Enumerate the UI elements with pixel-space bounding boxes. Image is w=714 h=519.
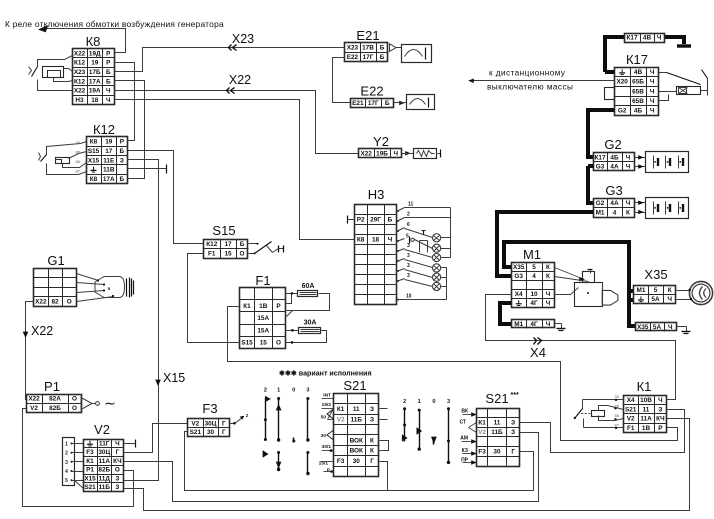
svg-text:Б: Б — [120, 148, 125, 155]
svg-text:М1: М1 — [514, 321, 523, 328]
ignition switch S21 contact table — [334, 394, 380, 477]
connector K17-4В inline table — [625, 34, 665, 43]
svg-text:Х4: Х4 — [530, 345, 546, 360]
svg-text:Г: Г — [116, 449, 120, 456]
svg-text:выключателю массы: выключателю массы — [487, 83, 573, 92]
svg-text:15: 15 — [260, 340, 268, 347]
svg-text:Ч: Ч — [388, 237, 393, 244]
svg-text:4: 4 — [532, 273, 536, 280]
svg-text:Б: Б — [240, 241, 245, 248]
H3 pin 5 wire with connector to lamp 2 — [397, 240, 399, 242]
battery G2 connector table — [594, 153, 635, 172]
svg-text:G2: G2 — [618, 108, 627, 115]
wire F3 30 to ignition switch Г bus — [185, 432, 534, 491]
H3 pin 10 wire — [397, 299, 399, 301]
svg-text:Ч: Ч — [546, 291, 551, 298]
svg-text:18: 18 — [372, 237, 380, 244]
ignition switch S21 variant contact table — [477, 409, 520, 467]
H3 pin 3 wire to lamp 3 — [397, 250, 399, 252]
svg-text:Ч: Ч — [106, 88, 111, 95]
G3 battery wires — [635, 202, 646, 204]
fuse block F1 connector table — [240, 288, 286, 349]
svg-text:3: 3 — [407, 273, 410, 279]
svg-text:4Б: 4Б — [610, 155, 619, 162]
svg-text:S21: S21 — [84, 484, 96, 491]
svg-text:17В: 17В — [362, 45, 374, 52]
svg-text:F3: F3 — [202, 401, 217, 416]
relay K12 coil and contact symbol — [47, 142, 87, 155]
svg-text:50: 50 — [321, 415, 327, 421]
socket X35 connector table — [634, 286, 677, 304]
svg-text:ВОК: ВОК — [350, 448, 363, 455]
svg-text:V2: V2 — [478, 429, 486, 436]
svg-text:К: К — [370, 448, 374, 455]
branch Г bus to S21 30 terminal — [380, 462, 388, 491]
svg-text:G3: G3 — [605, 183, 622, 198]
H3 pin 3 wire to lamp 4 — [397, 260, 399, 262]
svg-text:Х15: Х15 — [163, 371, 185, 385]
svg-text:82: 82 — [51, 299, 59, 306]
svg-text:60А: 60А — [302, 283, 315, 290]
tachometer P1 connector table — [27, 395, 82, 413]
svg-text:З: З — [115, 484, 119, 491]
connector Х35-5А ground table — [636, 323, 677, 332]
svg-text:Х23: Х23 — [232, 32, 254, 46]
M1 ground symbol — [555, 323, 562, 325]
svg-text:Ч: Ч — [546, 300, 551, 307]
svg-text:10В: 10В — [640, 397, 652, 404]
svg-text:З: З — [370, 416, 374, 423]
svg-text:Б: Б — [106, 78, 111, 85]
svg-text:З: З — [120, 157, 124, 164]
connector X4 chevrons and label — [534, 338, 537, 345]
svg-text:5: 5 — [654, 287, 658, 294]
svg-text:1: 1 — [418, 399, 421, 405]
svg-text:Х22: Х22 — [360, 150, 372, 157]
svg-text:2: 2 — [264, 388, 267, 394]
svg-text:Х22: Х22 — [74, 88, 86, 95]
svg-text:Х23: Х23 — [347, 45, 359, 52]
svg-text:К: К — [668, 287, 672, 294]
relay K8 coil and contact symbol — [38, 56, 73, 67]
svg-text:Ч: Ч — [668, 324, 673, 331]
svg-text:86: 86 — [76, 159, 81, 164]
svg-text:К8: К8 — [86, 34, 101, 49]
svg-text:F1: F1 — [627, 425, 635, 432]
svg-text:5: 5 — [532, 264, 536, 271]
svg-text:З: З — [658, 406, 662, 413]
svg-text:К8: К8 — [357, 237, 365, 244]
svg-text:4Г: 4Г — [530, 300, 538, 307]
svg-text:Б: Б — [120, 176, 125, 183]
svg-text:Ч: Ч — [106, 97, 111, 104]
svg-text:Т: Т — [421, 228, 426, 237]
svg-text:30А: 30А — [304, 320, 317, 327]
H3 pin 2 wire — [397, 220, 399, 222]
fuse F1 30A link and label — [286, 330, 299, 332]
generator G1 pictogram — [95, 277, 125, 298]
svg-text:Ч: Ч — [650, 108, 655, 115]
svg-text:Г: Г — [511, 448, 515, 455]
svg-text:Ч: Ч — [626, 164, 631, 171]
svg-text:***: *** — [511, 392, 519, 399]
svg-text:S15: S15 — [212, 223, 235, 238]
svg-text:К12: К12 — [93, 122, 115, 137]
svg-text:Р: Р — [658, 425, 663, 432]
svg-text:К8: К8 — [90, 176, 98, 183]
svg-text:К12: К12 — [74, 78, 85, 85]
lamp E22 symbol — [400, 101, 405, 105]
svg-text:F3: F3 — [86, 449, 94, 456]
starter relay K1 connector table — [624, 396, 667, 433]
svg-text:Б: Б — [380, 45, 385, 52]
svg-text:85: 85 — [615, 404, 620, 409]
solenoid Y2 connector table — [359, 149, 402, 158]
svg-text:V2: V2 — [627, 416, 635, 423]
tachograph V2 pin header — [63, 438, 75, 486]
wire X15: K12 11Е down to tachograph V2 — [124, 160, 159, 481]
svg-text:Н3: Н3 — [368, 187, 385, 202]
svg-text:Х15: Х15 — [88, 157, 100, 164]
svg-text:1: 1 — [277, 388, 280, 394]
svg-text:З: З — [370, 406, 374, 413]
svg-text:65В: 65В — [632, 88, 644, 95]
wire K12 11В body terminal — [128, 168, 167, 170]
svg-text:30Ц: 30Ц — [98, 449, 110, 456]
svg-text:19: 19 — [105, 139, 113, 146]
starter M1 pictogram — [583, 272, 595, 283]
svg-text:Х23: Х23 — [74, 69, 86, 76]
svg-text:Ч: Ч — [393, 150, 398, 157]
svg-text:Г: Г — [370, 458, 374, 465]
svg-text:К: К — [546, 264, 550, 271]
svg-text:К17: К17 — [627, 35, 638, 42]
svg-text:Ч: Ч — [650, 88, 655, 95]
wire X22: G1 82 down to tachometer P1 — [26, 302, 34, 400]
starter M1 connector table — [512, 263, 555, 308]
svg-text:86: 86 — [615, 413, 620, 418]
svg-text:18: 18 — [91, 97, 99, 104]
svg-text:2: 2 — [407, 212, 410, 218]
thick cable stub into K17 row 1 — [605, 70, 614, 74]
thick cable M1 5 to socket X35 — [504, 242, 634, 291]
wire X23: K8 17Б to lamp E21 — [115, 48, 345, 72]
svg-text:Ч: Ч — [650, 69, 655, 76]
connector М1-4Г ground table — [512, 320, 555, 329]
svg-text:V2: V2 — [30, 405, 38, 412]
warning lamp 4 — [433, 264, 441, 272]
generator G1 connector table — [34, 269, 77, 307]
H3 pin 11 wire — [397, 210, 399, 212]
lamp E21 symbol — [390, 44, 397, 52]
svg-text:З: З — [115, 475, 119, 482]
svg-text:К8: К8 — [90, 139, 98, 146]
svg-text:Ч: Ч — [657, 35, 662, 42]
svg-text:G3: G3 — [596, 164, 605, 171]
svg-text:3: 3 — [447, 399, 450, 405]
svg-text:М1: М1 — [637, 287, 646, 294]
connector X23 chevrons — [229, 45, 232, 51]
svg-text:Е21: Е21 — [356, 28, 379, 43]
svg-text:11Е: 11Е — [103, 157, 115, 164]
svg-text:17: 17 — [224, 241, 232, 248]
svg-text:ВК: ВК — [461, 409, 469, 415]
svg-text:Х35: Х35 — [644, 267, 667, 282]
wire K8 pin 19 to K12 pin 19 — [115, 63, 135, 141]
svg-text:82Б: 82Б — [98, 467, 110, 474]
svg-text:15: 15 — [224, 251, 232, 258]
svg-text:11: 11 — [643, 406, 650, 413]
svg-text:17Г: 17Г — [368, 100, 379, 107]
battery G3 connector table — [594, 199, 635, 218]
lamp E22 connector table — [351, 99, 394, 108]
svg-text:11Б: 11Б — [99, 484, 111, 491]
svg-text:4Г: 4Г — [530, 321, 538, 328]
svg-text:Ч: Ч — [667, 296, 672, 303]
svg-text:11А: 11А — [99, 458, 111, 465]
svg-text:15/2: 15/2 — [322, 402, 332, 408]
svg-text:к дистанционному: к дистанционному — [489, 69, 566, 78]
svg-text:S21: S21 — [343, 378, 366, 393]
wire K8 pin 17А to K12 pin 17А — [115, 81, 145, 179]
svg-text:К: К — [546, 273, 550, 280]
battery G2 symbol — [646, 152, 689, 173]
svg-text:S21: S21 — [190, 429, 202, 436]
S21 stub wire К1 11 — [380, 408, 388, 410]
S21 ВОК bridging bracket — [380, 441, 389, 451]
svg-text:85: 85 — [76, 150, 81, 155]
G2 battery wires — [635, 157, 646, 159]
svg-text:Р2: Р2 — [357, 217, 365, 224]
svg-text:11Б: 11Б — [491, 429, 503, 436]
svg-text:15А: 15А — [257, 315, 269, 322]
relay K12 connector table — [87, 137, 128, 184]
svg-text:Y2: Y2 — [373, 134, 389, 149]
svg-text:17: 17 — [105, 148, 113, 155]
svg-text:19Б: 19Б — [376, 150, 388, 157]
svg-text:30/1: 30/1 — [322, 444, 332, 450]
svg-text:2: 2 — [403, 399, 406, 405]
thick battery cable to K17 top connector — [605, 37, 624, 72]
tachograph V2 connector table — [84, 440, 124, 492]
svg-text:К1: К1 — [637, 379, 652, 394]
svg-text:КЧ: КЧ — [113, 458, 122, 465]
wire X22: K8 19А to valve Y2 — [115, 91, 359, 154]
svg-text:3: 3 — [306, 388, 309, 394]
svg-text:К1: К1 — [243, 303, 251, 310]
svg-text:К1: К1 — [478, 420, 486, 427]
H3 lamp bus right lower — [446, 268, 448, 300]
svg-text:11А: 11А — [640, 416, 652, 423]
svg-text:3: 3 — [407, 253, 410, 259]
svg-text:Ч: Ч — [650, 79, 655, 86]
svg-text:11: 11 — [408, 202, 414, 208]
svg-text:Р: Р — [106, 50, 111, 57]
svg-text:3: 3 — [407, 243, 410, 249]
svg-text:4В: 4В — [634, 69, 643, 76]
svg-text:V2: V2 — [191, 420, 199, 427]
svg-text:F1: F1 — [255, 273, 270, 288]
svg-text:65Б: 65Б — [632, 79, 644, 86]
svg-text:29Г: 29Г — [370, 217, 381, 224]
instrument cluster H3 connector table — [355, 205, 397, 305]
svg-text:4А: 4А — [610, 164, 619, 171]
svg-text:Х15: Х15 — [84, 475, 96, 482]
svg-text:АМ: АМ — [460, 436, 468, 442]
X35 socket wires — [677, 290, 690, 292]
svg-text:11Д: 11Д — [99, 475, 111, 482]
svg-text:К1: К1 — [337, 406, 345, 413]
svg-text:30: 30 — [207, 429, 215, 436]
svg-text:Х22: Х22 — [229, 73, 251, 87]
svg-text:Б: Б — [106, 69, 111, 76]
V2 11Г body terminal — [124, 443, 136, 445]
wire E21 17Г to E22 — [333, 58, 351, 103]
svg-text:S21: S21 — [485, 391, 508, 406]
svg-text:4: 4 — [613, 209, 617, 216]
socket X35 pictogram — [689, 281, 712, 304]
svg-text:О: О — [72, 405, 77, 412]
svg-text:в: в — [108, 286, 111, 291]
svg-text:19А: 19А — [89, 88, 101, 95]
svg-text:Ч: Ч — [626, 155, 631, 162]
H3 pin 3 wire to lamp 6 — [397, 280, 399, 282]
svg-text:S15: S15 — [88, 148, 100, 155]
svg-text:Б: Б — [385, 100, 390, 107]
svg-text:О: О — [72, 396, 77, 403]
H3 pin 6 wire to lamp 1 — [397, 230, 399, 232]
wire X4: M1 10 to relay K1 via connector X4 — [486, 295, 676, 400]
svg-text:О: О — [240, 251, 245, 258]
svg-text:11В: 11В — [103, 167, 115, 174]
S21 stub wire V2 11Б — [380, 419, 388, 421]
svg-text:17А: 17А — [103, 176, 115, 183]
svg-text:4В: 4В — [643, 35, 652, 42]
svg-text:Г: Г — [222, 429, 226, 436]
svg-text:17Г: 17Г — [363, 54, 374, 61]
svg-text:S21: S21 — [625, 406, 637, 413]
svg-text:СТ: СТ — [459, 420, 466, 426]
svg-text:К12: К12 — [206, 241, 217, 248]
svg-text:19: 19 — [91, 60, 99, 67]
svg-text:К: К — [626, 209, 630, 216]
svg-text:Е22: Е22 — [360, 84, 383, 99]
svg-text:Ч: Ч — [650, 98, 655, 105]
svg-text:4А: 4А — [610, 200, 619, 207]
svg-text:К1: К1 — [86, 458, 94, 465]
lamp E21 connector table — [345, 43, 389, 62]
svg-text:КЧ: КЧ — [656, 416, 665, 423]
svg-text:Ч: Ч — [546, 321, 551, 328]
wire P1 82Б to V2 82Б via bottom left route — [23, 409, 134, 507]
wire 30A fuse return to S15 15 row — [286, 331, 327, 343]
relay K8 connector table — [73, 49, 115, 105]
svg-text:Е21: Е21 — [352, 100, 364, 107]
svg-text:Ч: Ч — [115, 440, 120, 447]
thick cable X35 ground side — [629, 291, 636, 326]
svg-text:11: 11 — [353, 406, 360, 413]
svg-text:5: 5 — [65, 478, 68, 484]
svg-text:М1: М1 — [523, 247, 541, 262]
svg-text:30Ц: 30Ц — [205, 420, 217, 427]
svg-text:0: 0 — [432, 399, 435, 405]
wire K8 pin 18 to cluster H3 — [115, 100, 355, 240]
warning lamp 3 — [433, 253, 441, 261]
wire V2 11Б to ignition switch bus — [124, 419, 690, 511]
thick cable G3 М1-4 to starter M1 — [497, 212, 593, 276]
svg-text:17Б: 17Б — [89, 69, 101, 76]
svg-text:✱✱✱ вариант исполнения: ✱✱✱ вариант исполнения — [279, 370, 372, 378]
svg-text:G2: G2 — [604, 137, 621, 152]
svg-text:1: 1 — [65, 442, 68, 448]
svg-text:Х22: Х22 — [31, 324, 53, 338]
switch S15 connector table — [204, 240, 249, 259]
svg-text:82А: 82А — [49, 396, 61, 403]
svg-text:INT: INT — [323, 393, 331, 399]
warning lamp 6 — [433, 282, 441, 290]
wire V2 11А to relay K1 via bottom bus — [124, 433, 539, 502]
svg-text:К17: К17 — [595, 155, 606, 162]
svg-text:G2: G2 — [596, 200, 605, 207]
generator G1 terminal wires — [77, 274, 99, 281]
fuse F1 60A link and label — [286, 293, 298, 295]
svg-text:0: 0 — [292, 388, 295, 394]
svg-text:3: 3 — [407, 263, 410, 269]
svg-text:Х4: Х4 — [627, 397, 635, 404]
svg-text:О: О — [67, 299, 72, 306]
svg-text:65В: 65В — [632, 98, 644, 105]
svg-text:∼: ∼ — [104, 395, 116, 411]
svg-text:6: 6 — [407, 222, 410, 228]
fuse F3 output link to fuse 2 — [230, 423, 235, 425]
svg-text:1В: 1В — [259, 303, 268, 310]
wire K8 pin 19Д to relay annotation arrow — [44, 29, 126, 53]
svg-text:Н3: Н3 — [75, 97, 84, 104]
H3 Р2 29Г stub wire — [348, 219, 355, 221]
switch S15 pushbutton symbol — [249, 243, 258, 245]
svg-text:30: 30 — [353, 458, 361, 465]
svg-text:30: 30 — [321, 433, 327, 439]
svg-text:З: З — [511, 429, 515, 436]
svg-text:Р1: Р1 — [86, 467, 94, 474]
wire S21 variant 11 to relay K1 — [520, 410, 685, 453]
wire 60A fuse return to К1 1В row — [287, 294, 330, 311]
svg-text:17А: 17А — [89, 78, 101, 85]
svg-text:1В: 1В — [642, 425, 651, 432]
svg-text:5А: 5А — [651, 296, 660, 303]
X35 ground symbol — [677, 326, 687, 328]
svg-text:Х22: Х22 — [35, 299, 47, 306]
ground switch relay K17 connector table — [615, 68, 659, 116]
svg-text:V2: V2 — [94, 422, 110, 437]
svg-text:4: 4 — [65, 469, 68, 475]
svg-text:F3: F3 — [337, 458, 345, 465]
wire F1 К1 1В to relay K1 via bottom route — [228, 307, 678, 441]
starter M1 terminal wires — [555, 268, 585, 280]
svg-text:5А: 5А — [653, 324, 662, 331]
connector X15 arrow and label — [156, 380, 160, 385]
svg-text:Х22: Х22 — [74, 50, 86, 57]
thick cable M1 4Г to ground block — [500, 303, 511, 324]
svg-text:Х35: Х35 — [513, 264, 525, 271]
svg-text:К12: К12 — [74, 60, 85, 67]
annotation: to remote ground switch — [473, 80, 615, 82]
svg-text:Р: Р — [276, 303, 281, 310]
svg-text:Ч: Ч — [658, 397, 663, 404]
svg-text:М1: М1 — [596, 209, 605, 216]
wire K12 pin 17 to switch S15 — [128, 151, 204, 244]
svg-text:V2: V2 — [337, 416, 345, 423]
